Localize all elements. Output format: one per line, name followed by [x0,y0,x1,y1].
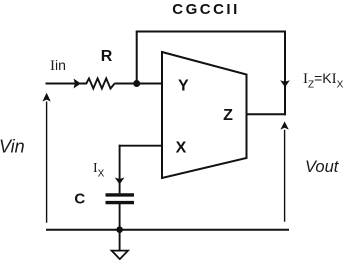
svg-text:Iin: Iin [50,57,66,74]
Vout indicator line [284,130,286,222]
svg-text:Z: Z [223,107,233,124]
capacitor C plate bottom [106,201,135,204]
wire feedback right vertical [284,31,286,116]
Vout indicator arrowhead [280,121,288,129]
svg-text:Vin: Vin [0,137,25,157]
ground stem [119,230,121,252]
arrow Iin current direction [74,79,81,89]
node junction dot on rail [116,226,123,233]
svg-text:R: R [101,48,113,65]
Vin indicator arrowhead [42,93,50,102]
wire resistor to Y pin [115,83,163,85]
ground symbol [112,251,128,260]
arrow IZ pointing down [280,80,290,87]
node junction dot at Y node [133,80,140,87]
svg-text:C: C [74,191,85,208]
wire feedback top horizontal [136,31,286,33]
wire X vertical down to capacitor [119,145,121,194]
CCII block U1 trapezoid [162,52,247,178]
resistor R [86,78,114,88]
wire Z output [246,113,286,115]
wire capacitor to ground rail [119,204,121,230]
wire input horizontal [46,83,88,85]
capacitor C plate top [106,193,135,196]
Vin indicator line [46,102,48,223]
svg-text:Y: Y [178,78,189,95]
arrow IX pointing down [115,178,125,185]
bottom rail wire [46,229,289,231]
wire feedback left vertical [136,32,138,84]
svg-text:X: X [176,139,187,156]
svg-text:Vout: Vout [305,158,340,176]
svg-text:CGCCII: CGCCII [172,1,240,18]
wire X pin horizontal [119,145,162,147]
